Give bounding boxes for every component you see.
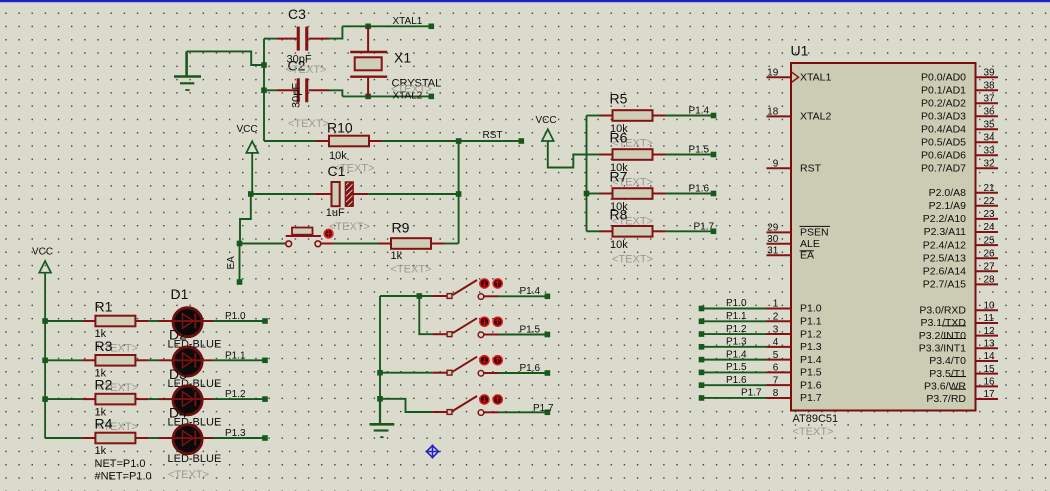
- svg-text:22: 22: [984, 196, 996, 207]
- U1 pin 22 P2.1/A9: [929, 196, 998, 212]
- ground switches: [370, 399, 395, 437]
- node P1.3 ladder: [699, 337, 767, 350]
- svg-text:C3: C3: [288, 6, 306, 22]
- svg-text:D1: D1: [171, 286, 189, 302]
- resistor R6: [587, 130, 666, 189]
- svg-text:13: 13: [984, 339, 996, 350]
- svg-text:P0.0/AD0: P0.0/AD0: [921, 71, 966, 83]
- capacitor C1: [252, 163, 374, 234]
- U1 pin 3 P1.2: [767, 324, 822, 340]
- svg-text:EA: EA: [226, 256, 237, 270]
- svg-text:RST: RST: [800, 162, 822, 174]
- svg-text:34: 34: [984, 132, 996, 143]
- svg-text:1k: 1k: [95, 445, 107, 457]
- svg-text:7: 7: [773, 375, 779, 386]
- svg-text:P1.7: P1.7: [800, 392, 822, 404]
- svg-text:P1.7: P1.7: [694, 221, 715, 232]
- svg-text:P2.6/A14: P2.6/A14: [923, 265, 966, 277]
- svg-text:P1.6: P1.6: [800, 379, 822, 391]
- svg-text:30pF: 30pF: [290, 83, 302, 108]
- LED D4: [148, 425, 221, 481]
- svg-text:<TEXT>: <TEXT>: [391, 264, 432, 276]
- U1 pin 36 P0.3/AD3: [921, 106, 998, 122]
- svg-text:VCC: VCC: [32, 246, 53, 257]
- U1 pin 9 RST: [767, 159, 822, 175]
- svg-text:R9: R9: [392, 220, 410, 236]
- svg-text:4: 4: [773, 337, 779, 348]
- svg-text:R3: R3: [95, 338, 113, 354]
- svg-text:P1.7: P1.7: [533, 403, 554, 414]
- svg-text:P3.6/WR: P3.6/WR: [924, 381, 966, 393]
- svg-text:P1.3: P1.3: [726, 337, 747, 348]
- svg-text:P3.2/INT0: P3.2/INT0: [919, 330, 966, 342]
- svg-text:R5: R5: [610, 91, 628, 107]
- svg-text:1uF: 1uF: [326, 207, 345, 219]
- node P1.0 ladder: [699, 298, 767, 311]
- svg-text:10k: 10k: [329, 150, 347, 162]
- svg-text:P1.2: P1.2: [800, 328, 822, 340]
- svg-text:P1.5: P1.5: [726, 362, 747, 373]
- svg-text:P1.6: P1.6: [520, 363, 541, 374]
- svg-text:P1.4: P1.4: [726, 349, 747, 360]
- U1 pin 12 P3.2/INT0: [919, 326, 998, 342]
- svg-text:6: 6: [773, 363, 779, 374]
- svg-text:24: 24: [984, 222, 996, 233]
- U1 pin 35 P0.4/AD4: [921, 119, 998, 135]
- svg-text:P2.2/A10: P2.2/A10: [923, 213, 966, 225]
- U1 pin 13 P3.3/INT1: [919, 339, 998, 355]
- svg-text:10: 10: [984, 301, 996, 312]
- svg-text:P3.4/T0: P3.4/T0: [929, 355, 966, 367]
- svg-text:PSEN: PSEN: [800, 227, 829, 239]
- svg-text:P0.6/AD6: P0.6/AD6: [921, 149, 966, 161]
- resistor R3: [45, 338, 148, 380]
- U1 pin 30 ALE: [767, 234, 820, 250]
- U1 pin 6 P1.5: [767, 363, 822, 379]
- svg-text:P3.3/INT1: P3.3/INT1: [919, 343, 966, 355]
- node C1 left junction: [248, 191, 254, 197]
- svg-text:<TEXT>: <TEXT>: [329, 221, 370, 233]
- wire C3 to XTAL1 row: [329, 26, 342, 38]
- wire R9 to bus corner: [444, 243, 459, 245]
- svg-text:21: 21: [984, 183, 996, 194]
- svg-text:35: 35: [984, 119, 996, 130]
- node P1.6 ladder: [699, 375, 767, 388]
- svg-text:P2.7/A15: P2.7/A15: [923, 279, 966, 291]
- U1 pin 38 P0.1/AD1: [921, 80, 998, 96]
- svg-text:9: 9: [773, 159, 779, 170]
- svg-text:XTAL1: XTAL1: [393, 16, 423, 27]
- node XTAL2: [342, 91, 434, 102]
- resistor R10: [264, 118, 382, 162]
- svg-text:37: 37: [984, 93, 996, 104]
- svg-text:10k: 10k: [610, 239, 628, 251]
- node P1.4: [666, 106, 717, 119]
- svg-text:36: 36: [984, 106, 996, 117]
- svg-text:P1.0: P1.0: [225, 311, 246, 322]
- svg-text:P3.1/TXD: P3.1/TXD: [920, 317, 966, 329]
- U1 pin 18 XTAL2: [767, 107, 832, 123]
- U1 pin 11 P3.1/TXD: [920, 313, 998, 329]
- U1 pin 8 P1.7: [767, 388, 822, 404]
- svg-text:P1.2: P1.2: [225, 389, 246, 400]
- svg-text:28: 28: [984, 275, 996, 286]
- node P1.2: [213, 389, 268, 402]
- wire ground to bus: [187, 51, 264, 65]
- U1 pin 14 P3.4/T0: [929, 351, 998, 367]
- svg-text:<TEXT>: <TEXT>: [286, 64, 327, 76]
- svg-text:P2.0/A8: P2.0/A8: [929, 187, 967, 199]
- U1 pin 34 P0.5/AD5: [921, 132, 998, 148]
- node P1.5: [666, 145, 717, 158]
- svg-text:32: 32: [984, 158, 996, 169]
- svg-text:P1.3: P1.3: [225, 428, 246, 439]
- resistor R7: [587, 169, 666, 228]
- capacitor C2: [264, 58, 329, 108]
- node P1.5 ladder: [699, 362, 767, 375]
- svg-text:16: 16: [984, 377, 996, 388]
- U1 pin 10 P3.0/RXD: [919, 301, 998, 317]
- svg-text:R8: R8: [610, 206, 628, 222]
- wire R10 to RST bus: [382, 140, 459, 142]
- node P1.1: [213, 350, 268, 363]
- svg-text:8: 8: [773, 388, 779, 399]
- U1 pin 39 P0.0/AD0: [921, 67, 998, 83]
- svg-text:NET=P1.0: NET=P1.0: [95, 458, 146, 470]
- svg-text:25: 25: [984, 235, 996, 246]
- capacitor C3: [264, 6, 329, 66]
- svg-text:P0.5/AD5: P0.5/AD5: [921, 136, 966, 148]
- U1 pin 29 PSEN: [767, 223, 831, 239]
- node P1.3: [213, 428, 268, 441]
- svg-text:P2.5/A13: P2.5/A13: [923, 252, 966, 264]
- U1 pin 28 P2.7/A15: [923, 275, 998, 291]
- svg-text:P1.4: P1.4: [520, 286, 541, 297]
- svg-text:<TEXT>: <TEXT>: [391, 83, 432, 95]
- svg-text:VCC: VCC: [237, 124, 258, 135]
- resistor R4: [45, 416, 148, 458]
- svg-text:38: 38: [984, 80, 996, 91]
- node P1.6: [666, 184, 717, 197]
- svg-text:X1: X1: [394, 50, 411, 66]
- svg-text:<TEXT>: <TEXT>: [612, 253, 653, 265]
- U1 pin 37 P0.2/AD2: [921, 93, 998, 109]
- power VCC 2: [536, 115, 587, 168]
- svg-text:26: 26: [984, 248, 996, 259]
- svg-text:P3.5/T1: P3.5/T1: [929, 368, 966, 380]
- U1 pin 21 P2.0/A8: [929, 183, 998, 199]
- svg-text:VCC: VCC: [536, 115, 557, 126]
- button (reset push switch): [240, 228, 333, 247]
- switch SW4: [380, 395, 545, 416]
- U1 pin 2 P1.1: [767, 311, 822, 327]
- value label NET=P1.0: [95, 458, 152, 483]
- svg-text:P1.5: P1.5: [689, 145, 710, 156]
- svg-text:P0.4/AD4: P0.4/AD4: [921, 123, 966, 135]
- crystal X1: [350, 26, 441, 96]
- svg-text:P2.4/A12: P2.4/A12: [923, 239, 966, 251]
- ground: [174, 51, 201, 90]
- svg-text:RST: RST: [483, 130, 503, 141]
- svg-text:17: 17: [984, 389, 996, 400]
- svg-text:P1.0: P1.0: [726, 298, 747, 309]
- node XTAL1: [342, 16, 434, 29]
- U1 pin 23 P2.2/A10: [923, 209, 998, 225]
- U1 pin 5 P1.4: [767, 350, 822, 366]
- switch SW3: [380, 356, 545, 377]
- svg-text:C1: C1: [328, 163, 346, 179]
- value label TEXT R3: [97, 382, 138, 394]
- switch SW1: [380, 279, 545, 300]
- svg-text:P1.4: P1.4: [689, 106, 710, 117]
- wire C1 to right bus: [368, 191, 461, 197]
- svg-text:ALE: ALE: [800, 238, 820, 250]
- svg-text:P1.6: P1.6: [689, 184, 710, 195]
- wire button to R9: [321, 243, 378, 245]
- svg-text:18: 18: [767, 107, 779, 118]
- wire VCC to button row: [237, 194, 251, 246]
- U1 pin 7 P1.6: [767, 375, 822, 391]
- svg-text:P3.0/RXD: P3.0/RXD: [919, 304, 966, 316]
- svg-text:U1: U1: [791, 43, 809, 59]
- svg-text:P2.1/A9: P2.1/A9: [929, 200, 967, 212]
- bus R5-R8: [584, 116, 590, 232]
- node P1.7: [666, 221, 717, 234]
- svg-text:31: 31: [767, 245, 779, 256]
- node P1.4 ladder: [699, 349, 767, 362]
- svg-text:<TEXT>: <TEXT>: [793, 426, 834, 438]
- svg-text:P1.2: P1.2: [726, 324, 747, 335]
- svg-text:R7: R7: [610, 169, 628, 185]
- svg-text:P3.7/RD: P3.7/RD: [926, 393, 966, 405]
- U1 pin 19 XTAL1: [767, 67, 832, 83]
- U1 pin 26 P2.5/A13: [923, 248, 998, 264]
- bus VCC LEDs: [42, 318, 82, 438]
- svg-text:P1.1: P1.1: [800, 315, 822, 327]
- resistor R2: [45, 377, 148, 419]
- svg-text:R6: R6: [610, 130, 628, 146]
- svg-text:11: 11: [984, 313, 995, 324]
- svg-text:XTAL2: XTAL2: [800, 111, 831, 123]
- LED D2: [148, 347, 221, 390]
- bus RST right: [456, 138, 462, 243]
- svg-text:P0.3/AD3: P0.3/AD3: [921, 110, 966, 122]
- bus switches: [377, 296, 383, 402]
- svg-text:R10: R10: [327, 120, 353, 136]
- node P1.6 switch: [520, 363, 551, 376]
- U1 pin 31 EA: [767, 245, 815, 261]
- svg-text:P1.5: P1.5: [520, 324, 541, 335]
- svg-text:1: 1: [773, 299, 779, 310]
- svg-text:R1: R1: [95, 299, 113, 315]
- svg-text:12: 12: [984, 326, 996, 337]
- svg-text:P1.7: P1.7: [741, 388, 762, 399]
- svg-text:P2.3/A11: P2.3/A11: [924, 226, 967, 238]
- node P1.4 switch: [520, 286, 551, 299]
- terminal EA: [226, 244, 242, 285]
- node P1.5 switch: [520, 324, 551, 337]
- svg-text:1k: 1k: [391, 250, 403, 262]
- svg-text:P0.1/AD1: P0.1/AD1: [921, 84, 966, 96]
- U1 pin 4 P1.3: [767, 337, 822, 353]
- svg-text:27: 27: [984, 262, 996, 273]
- svg-text:#NET=P1.0: #NET=P1.0: [95, 471, 152, 483]
- U1 pin 27 P2.6/A14: [923, 262, 998, 278]
- svg-text:P1.6: P1.6: [726, 375, 747, 386]
- svg-text:R4: R4: [95, 416, 113, 432]
- svg-text:LED-BLUE: LED-BLUE: [168, 453, 222, 465]
- U1 pin 15 P3.5/T1: [929, 364, 998, 380]
- origin marker: [426, 445, 440, 459]
- switch SW2: [419, 296, 545, 338]
- node bus C3/C2/ground/R10: [261, 39, 267, 141]
- power VCC 1: [237, 124, 259, 194]
- node P1.1 ladder: [699, 311, 767, 324]
- wire C2 to XTAL2 row: [329, 90, 342, 96]
- svg-text:23: 23: [984, 209, 996, 220]
- svg-text:30: 30: [767, 234, 779, 245]
- svg-text:P1.4: P1.4: [800, 354, 822, 366]
- U1 pin 17 P3.7/RD: [926, 389, 998, 405]
- node RST: [459, 130, 524, 144]
- value label TEXT R1: [97, 343, 138, 355]
- U1 pin 24 P2.3/A11: [924, 222, 998, 238]
- U1 pin 32 P0.7/AD7: [921, 158, 998, 174]
- node P1.7 switch: [533, 403, 554, 415]
- U1 pin 1 P1.0: [767, 299, 822, 315]
- resistor R5: [587, 91, 666, 150]
- resistor R9: [378, 220, 444, 276]
- svg-text:XTAL1: XTAL1: [800, 71, 831, 83]
- svg-text:15: 15: [984, 364, 996, 375]
- svg-text:33: 33: [984, 145, 996, 156]
- svg-text:29: 29: [767, 223, 779, 234]
- node P1.7 ladder: [699, 388, 767, 401]
- svg-text:P1.1: P1.1: [225, 350, 246, 361]
- svg-text:P1.5: P1.5: [800, 367, 822, 379]
- svg-text:P1.3: P1.3: [800, 341, 822, 353]
- U1 pin 25 P2.4/A12: [923, 235, 998, 251]
- node P1.0: [213, 311, 268, 324]
- svg-text:2: 2: [773, 311, 779, 322]
- svg-text:39: 39: [984, 67, 996, 78]
- node P1.2 ladder: [699, 324, 767, 337]
- op-amp U1 body: [791, 43, 976, 439]
- svg-text:<TEXT>: <TEXT>: [288, 118, 329, 130]
- svg-text:<TEXT>: <TEXT>: [168, 469, 209, 481]
- svg-text:5: 5: [773, 350, 779, 361]
- resistor R1: [45, 299, 148, 341]
- svg-text:3: 3: [773, 324, 779, 335]
- svg-text:R2: R2: [95, 377, 113, 393]
- svg-text:AT89C51: AT89C51: [793, 413, 839, 425]
- svg-text:P0.2/AD2: P0.2/AD2: [921, 97, 966, 109]
- U1 pin 16 P3.6/WR: [924, 377, 998, 393]
- LED D1: [148, 286, 221, 350]
- svg-text:P1.1: P1.1: [726, 311, 747, 322]
- svg-text:P1.0: P1.0: [800, 303, 822, 315]
- LED D3: [148, 386, 221, 429]
- power VCC 3: [32, 246, 53, 438]
- svg-text:19: 19: [767, 67, 779, 78]
- value label TEXT R2: [97, 421, 138, 433]
- U1 pin 33 P0.6/AD6: [921, 145, 998, 161]
- resistor R8: [587, 206, 666, 265]
- svg-text:14: 14: [984, 351, 996, 362]
- svg-text:P0.7/AD7: P0.7/AD7: [921, 162, 966, 174]
